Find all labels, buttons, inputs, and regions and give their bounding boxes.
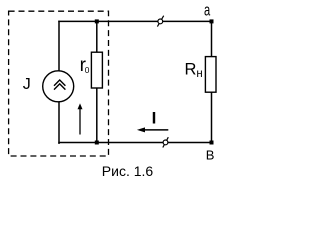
wire r0 branch top [96,21,98,52]
load current arrow I (left) [143,129,168,131]
wire left vertical upper [58,21,60,71]
resistor r0 [91,52,102,88]
measurement point on top wire (circle with slash) [157,16,163,27]
wire r0 branch bottom [96,88,98,143]
wire bottom [59,142,212,144]
wire left vertical lower [58,102,60,144]
junction dot top r0 [95,19,99,23]
node a dot [210,19,214,23]
dashed boundary of current-source network [9,11,109,156]
svg-text:I: I [152,108,157,127]
svg-text:В: В [206,148,215,163]
node b dot [210,141,214,145]
current source arrow chevrons [54,80,65,86]
junction dot bottom r0 [95,141,99,145]
svg-text:J: J [23,76,31,93]
wire right vertical lower (Rn to b) [211,92,213,143]
measurement point on bottom wire (circle with slash) [163,137,169,147]
svg-text:a: a [204,1,211,20]
current source J [43,71,74,102]
wire right vertical upper (a to Rn) [211,21,213,57]
internal current arrow (up) [79,108,81,135]
wire top (node between source and r0 to node a) [59,20,212,22]
resistor Rn [205,57,216,93]
svg-text:Рис. 1.6: Рис. 1.6 [102,163,154,179]
